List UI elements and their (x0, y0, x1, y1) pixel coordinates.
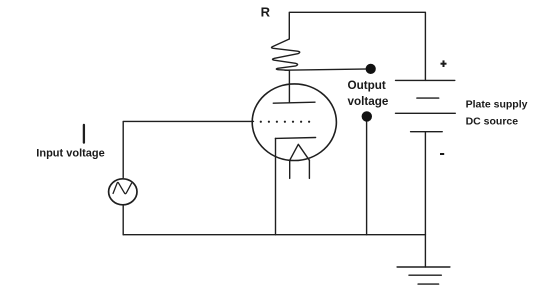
AC source sine wave (113, 182, 131, 193)
label battery plus (441, 60, 447, 67)
svg-text:R: R (261, 5, 271, 20)
triode plate (273, 102, 315, 103)
triode V1 envelope (252, 84, 336, 161)
wire: grid to AC source (123, 121, 253, 177)
AC source circle (109, 179, 137, 205)
wire: resistor bottom to plate (288, 70, 290, 102)
triode heater filament (290, 144, 310, 160)
node dot: output voltage bottom (362, 111, 372, 121)
node dot: output voltage top (366, 64, 376, 74)
triode cathode (275, 137, 315, 140)
battery B1 upper short plate (417, 97, 439, 99)
input marker tick (83, 125, 85, 143)
ground top line (397, 266, 450, 268)
svg-text:Input voltage: Input voltage (36, 148, 104, 160)
svg-text:voltage: voltage (348, 95, 389, 108)
svg-text:DC source: DC source (466, 115, 519, 127)
wire: resistor bottom to output node (285, 69, 371, 70)
wire: battery bottom to ground (424, 132, 426, 267)
ground middle line (409, 274, 441, 276)
wire: resistor top to battery plus (289, 12, 425, 80)
triode heater lead right (308, 160, 310, 178)
battery B1 bottom short plate (411, 131, 443, 133)
svg-text:Output: Output (348, 79, 386, 92)
wire: output node down to bottom bus (366, 117, 368, 235)
resistor R (272, 39, 300, 70)
svg-text:Plate supply: Plate supply (466, 98, 528, 110)
wire: AC source bottom lead (122, 205, 124, 235)
battery B1 top long plate (396, 79, 455, 81)
triode heater lead left (289, 160, 291, 178)
triode cathode lead (275, 138, 277, 234)
label battery minus (440, 153, 444, 155)
ground bottom line (418, 283, 439, 285)
wire: bottom bus (123, 234, 425, 236)
battery B1 lower long plate (396, 112, 456, 114)
grid dots (260, 121, 311, 123)
